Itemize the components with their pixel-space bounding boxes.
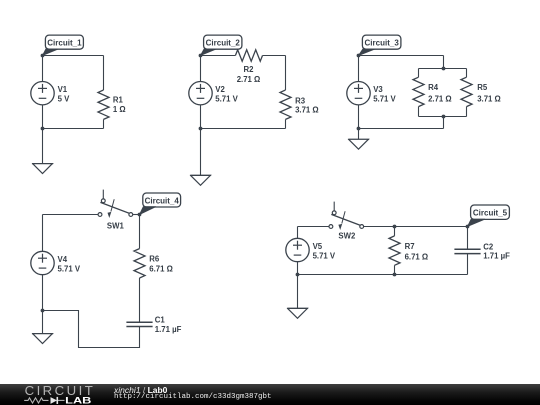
wire bbox=[466, 107, 468, 117]
svg-text:Circuit_4: Circuit_4 bbox=[145, 196, 180, 205]
wire bbox=[285, 119, 287, 128]
svg-text:V3: V3 bbox=[373, 85, 383, 94]
wire bbox=[43, 55, 104, 57]
V5 value label 5.71 V bbox=[313, 242, 336, 261]
wire bbox=[285, 56, 287, 91]
junction bbox=[41, 127, 45, 131]
logo resistor zigzag bbox=[24, 398, 48, 403]
svg-text:SW2: SW2 bbox=[338, 232, 356, 241]
svg-text:Circuit_1: Circuit_1 bbox=[47, 39, 82, 48]
junction bbox=[357, 127, 361, 131]
svg-text:5 V: 5 V bbox=[58, 95, 71, 104]
R5 value label 3.71 Ω bbox=[477, 83, 501, 104]
resistor R3 bbox=[280, 90, 291, 119]
R4 value label 2.71 Ω bbox=[428, 83, 452, 104]
switch SW2 bbox=[329, 202, 364, 230]
ground bbox=[190, 129, 211, 186]
junction bbox=[393, 273, 397, 277]
ground bbox=[348, 129, 369, 150]
node Circuit_3 bbox=[357, 54, 361, 58]
wire bbox=[139, 215, 141, 249]
junction bbox=[41, 309, 45, 313]
capacitor C1 bbox=[126, 322, 152, 326]
node label Circuit_2 bbox=[201, 35, 242, 55]
svg-text:3.71 Ω: 3.71 Ω bbox=[477, 95, 501, 104]
wire bbox=[200, 56, 202, 129]
svg-text:1 Ω: 1 Ω bbox=[113, 105, 126, 114]
wire bbox=[359, 128, 444, 130]
node label Circuit_4 bbox=[140, 193, 181, 215]
svg-text:5.71 V: 5.71 V bbox=[58, 264, 81, 273]
node Circuit_1 bbox=[41, 54, 45, 58]
resistor R5 bbox=[461, 77, 472, 106]
voltage source V5 bbox=[286, 238, 309, 261]
svg-text:V4: V4 bbox=[58, 255, 68, 264]
R1 value label 1 Ω bbox=[113, 95, 126, 114]
R6 value label 6.71 Ω bbox=[149, 254, 173, 273]
svg-text:Circuit_5: Circuit_5 bbox=[473, 209, 508, 218]
CircuitLab logo bbox=[0, 384, 110, 405]
svg-text:3.71 Ω: 3.71 Ω bbox=[295, 106, 319, 115]
wire bbox=[394, 265, 396, 274]
svg-text:Circuit_2: Circuit_2 bbox=[206, 39, 241, 48]
wire bbox=[419, 116, 467, 118]
svg-text:2.71 Ω: 2.71 Ω bbox=[428, 95, 452, 104]
R3 value label 3.71 Ω bbox=[295, 96, 319, 114]
junction bbox=[442, 115, 446, 119]
wire bbox=[43, 311, 140, 348]
svg-text:C1: C1 bbox=[155, 316, 166, 325]
capacitor C2 bbox=[454, 249, 480, 253]
V1 value label 5 V bbox=[58, 85, 71, 104]
V3 value label 5.71 V bbox=[373, 85, 396, 104]
junction bbox=[393, 225, 397, 229]
svg-text:R5: R5 bbox=[477, 83, 488, 92]
V4 value label 5.71 V bbox=[58, 255, 81, 274]
ground bbox=[32, 311, 53, 344]
footer bar bbox=[0, 384, 540, 405]
resistor R6 bbox=[134, 249, 145, 278]
resistor R1 bbox=[98, 90, 109, 119]
wire bbox=[43, 214, 99, 216]
wire bbox=[419, 68, 467, 70]
voltage source V3 bbox=[347, 82, 370, 105]
svg-text:5.71 V: 5.71 V bbox=[373, 95, 396, 104]
voltage source V2 bbox=[189, 82, 212, 105]
logo diode bbox=[51, 397, 58, 404]
ground bbox=[32, 129, 53, 174]
C2 value label 1.71 µF bbox=[483, 242, 510, 260]
wire bbox=[139, 278, 141, 322]
wire bbox=[358, 56, 360, 129]
node label Circuit_3 bbox=[359, 35, 401, 55]
resistor R4 bbox=[413, 77, 424, 106]
svg-text:1.71 µF: 1.71 µF bbox=[483, 252, 510, 261]
svg-text:6.71 Ω: 6.71 Ω bbox=[405, 253, 429, 262]
node Circuit_2 bbox=[199, 54, 203, 58]
wire bbox=[201, 128, 286, 130]
svg-text:5.71 V: 5.71 V bbox=[313, 251, 336, 260]
wire bbox=[263, 55, 286, 57]
svg-text:R1: R1 bbox=[113, 95, 124, 104]
ground bbox=[287, 275, 308, 319]
R2 value label 2.71 Ω bbox=[237, 65, 261, 84]
wire bbox=[466, 69, 468, 78]
wire bbox=[42, 215, 44, 312]
wire bbox=[418, 69, 420, 78]
wire bbox=[201, 55, 236, 57]
node Circuit_4 bbox=[138, 213, 142, 217]
resistor R2 bbox=[235, 50, 262, 61]
wire bbox=[298, 274, 468, 276]
node Circuit_5 bbox=[466, 225, 470, 229]
wire bbox=[42, 56, 44, 129]
junction bbox=[199, 127, 203, 131]
junction bbox=[296, 273, 300, 277]
wire bbox=[443, 56, 445, 69]
wire bbox=[418, 107, 420, 117]
wire bbox=[103, 119, 105, 128]
svg-text:V5: V5 bbox=[313, 242, 323, 251]
V2 value label 5.71 V bbox=[215, 85, 238, 104]
svg-text:V2: V2 bbox=[215, 85, 225, 94]
node label Circuit_1 bbox=[43, 35, 84, 55]
svg-text:R7: R7 bbox=[405, 242, 415, 251]
svg-text:Circuit_3: Circuit_3 bbox=[365, 39, 400, 48]
svg-text:R4: R4 bbox=[428, 83, 439, 92]
wire bbox=[467, 227, 469, 250]
svg-text:R3: R3 bbox=[295, 96, 306, 105]
wire bbox=[298, 226, 330, 228]
voltage source V1 bbox=[31, 82, 54, 105]
svg-text:R2: R2 bbox=[244, 65, 255, 74]
svg-text:2.71 Ω: 2.71 Ω bbox=[237, 75, 261, 84]
svg-text:5.71 V: 5.71 V bbox=[215, 95, 238, 104]
wire bbox=[359, 55, 444, 57]
wire bbox=[43, 128, 104, 130]
wire bbox=[467, 254, 469, 275]
wire bbox=[133, 214, 140, 216]
svg-text:V1: V1 bbox=[58, 85, 68, 94]
svg-text:R6: R6 bbox=[149, 254, 160, 263]
wire bbox=[297, 227, 299, 275]
C1 value label 1.71 µF bbox=[155, 316, 182, 334]
resistor R7 bbox=[389, 236, 400, 265]
wire bbox=[394, 227, 396, 236]
svg-text:6.71 Ω: 6.71 Ω bbox=[149, 265, 173, 274]
R7 value label 6.71 Ω bbox=[405, 242, 429, 261]
node label Circuit_5 bbox=[468, 205, 510, 227]
svg-text:C2: C2 bbox=[483, 242, 494, 251]
junction bbox=[442, 67, 446, 71]
wire bbox=[103, 56, 105, 91]
footer title text bbox=[114, 385, 167, 395]
wire bbox=[443, 117, 445, 129]
svg-text:1.71 µF: 1.71 µF bbox=[155, 325, 182, 334]
switch SW1 bbox=[98, 190, 133, 218]
svg-text:SW1: SW1 bbox=[107, 222, 125, 231]
voltage source V4 bbox=[31, 251, 54, 274]
wire bbox=[364, 226, 468, 228]
svg-text:LAB: LAB bbox=[65, 395, 91, 405]
